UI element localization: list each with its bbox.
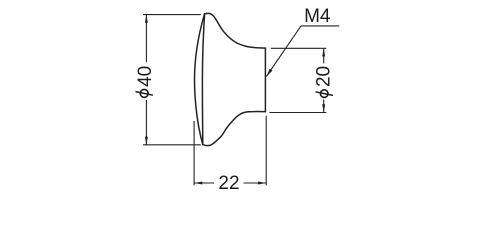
dim 22 dimension line right segment [244, 182, 267, 184]
dim phi40 top extension line [143, 14, 201, 16]
leader M4 diagonal segment [266, 26, 301, 77]
knob head front face outer arc [195, 14, 205, 145]
dim phi20 bottom arrowhead [322, 104, 325, 112]
dim phi40 dimension line lower segment [145, 100, 147, 145]
label phi40 diameter symbol [136, 89, 153, 97]
dim 22 left extension line [193, 121, 195, 185]
dim 22 right extension line [265, 116, 267, 186]
svg-text:M4: M4 [304, 6, 331, 27]
dim phi20 dimension line lower segment [323, 100, 325, 113]
knob head front face inner line [202, 14, 204, 145]
dim 22 right arrowhead [258, 182, 266, 185]
svg-text:22: 22 [218, 173, 239, 194]
dim phi20 top arrowhead [322, 48, 325, 56]
dim phi40 dimension line upper segment [145, 15, 147, 63]
knob top flare profile [205, 13, 266, 48]
label phi20 diameter symbol [316, 90, 333, 98]
dim phi40 bottom extension line [143, 144, 201, 146]
leader M4 arrowhead [266, 69, 272, 77]
cylinder right face [264, 48, 266, 112]
dim phi20 bottom extension line [270, 112, 327, 114]
dim phi20 top extension line [271, 47, 327, 49]
dim phi40 bottom arrowhead [145, 137, 148, 145]
knob bottom flare profile [203, 112, 266, 146]
dim phi40 top arrowhead [145, 15, 148, 23]
leader M4 horizontal segment [301, 25, 339, 27]
svg-text:40: 40 [135, 66, 156, 87]
svg-text:20: 20 [314, 66, 335, 87]
dim 22 left arrowhead [194, 182, 202, 185]
dim 22 dimension line left segment [194, 182, 214, 184]
dim phi20 dimension line upper segment [323, 48, 325, 63]
